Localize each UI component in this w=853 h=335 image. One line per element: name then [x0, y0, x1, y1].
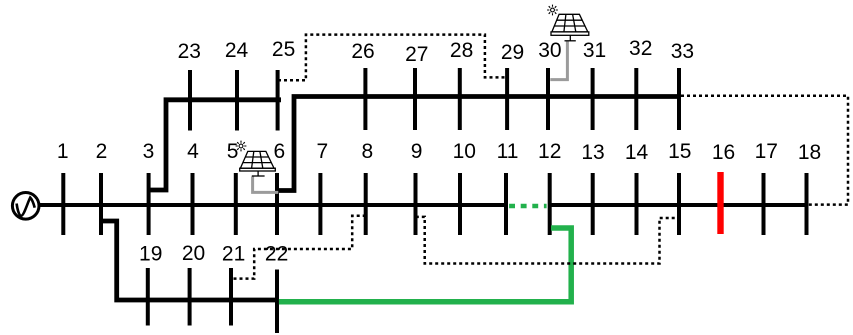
- svg-text:7: 7: [316, 140, 328, 163]
- svg-text:16: 16: [712, 141, 735, 164]
- svg-text:11: 11: [497, 140, 519, 163]
- svg-text:1: 1: [57, 140, 69, 163]
- svg-text:31: 31: [583, 39, 606, 62]
- svg-text:13: 13: [581, 141, 604, 164]
- svg-text:23: 23: [178, 40, 201, 63]
- svg-text:29: 29: [501, 41, 524, 64]
- svg-text:25: 25: [272, 38, 295, 61]
- svg-text:27: 27: [405, 43, 428, 66]
- svg-text:21: 21: [222, 243, 245, 266]
- svg-text:15: 15: [668, 140, 691, 163]
- svg-text:14: 14: [625, 141, 649, 164]
- svg-text:17: 17: [755, 140, 778, 163]
- svg-text:24: 24: [225, 39, 249, 62]
- svg-text:19: 19: [139, 243, 162, 266]
- svg-text:9: 9: [411, 140, 423, 163]
- svg-text:22: 22: [265, 243, 288, 266]
- svg-text:5: 5: [227, 140, 239, 163]
- svg-text:32: 32: [629, 37, 652, 60]
- svg-text:8: 8: [361, 140, 373, 163]
- svg-text:3: 3: [143, 140, 155, 163]
- svg-text:28: 28: [450, 39, 473, 62]
- svg-text:30: 30: [538, 39, 561, 62]
- svg-text:12: 12: [538, 140, 561, 163]
- svg-text:6: 6: [274, 140, 286, 163]
- svg-text:2: 2: [96, 140, 108, 163]
- svg-text:26: 26: [351, 40, 374, 63]
- svg-text:4: 4: [187, 140, 199, 163]
- svg-text:18: 18: [798, 141, 821, 164]
- svg-text:20: 20: [182, 242, 205, 265]
- svg-text:33: 33: [671, 40, 694, 63]
- svg-text:10: 10: [453, 140, 476, 163]
